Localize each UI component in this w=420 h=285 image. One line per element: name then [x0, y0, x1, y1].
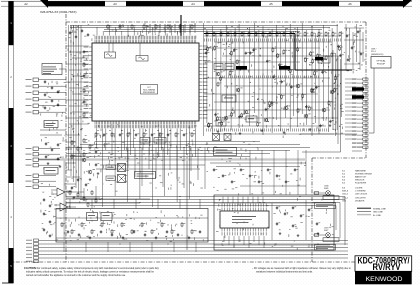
spindle motor connector row	[323, 238, 339, 242]
svg-text:variations between individual: variations between individual instrument…	[256, 271, 313, 274]
wire IC5 verticals down	[223, 236, 225, 242]
svg-text:For continued safety, replace: For continued safety, replace safety cri…	[37, 267, 160, 270]
wire mid right verticals	[249, 150, 251, 195]
spindle motor label box	[315, 245, 336, 251]
wire left mid links	[40, 129, 66, 131]
wire pickup column feed lines	[345, 78, 357, 80]
board outline dash-dot right edge	[365, 22, 367, 158]
IC7 microprocessor body	[92, 43, 199, 121]
node dots mid band	[96, 147, 97, 148]
svg-text:CAUTION:: CAUTION:	[24, 266, 37, 270]
connector CN1 pin boxes	[33, 78, 39, 81]
top border zone bar A5	[282, 1, 339, 6]
small box row under bus a	[214, 64, 223, 70]
svg-text:DRLAYER: DRLAYER	[355, 200, 365, 203]
svg-text:X26-675A-XX (X092-76XX): X26-675A-XX (X092-76XX)	[40, 10, 77, 14]
components between bus and IC7	[83, 50, 85, 51]
wire op-amp area links	[66, 191, 84, 193]
svg-text:indicates safety critical comp: indicates safety critical components. To…	[26, 271, 155, 274]
wire left vertical bus	[68, 25, 70, 170]
pin label fence right cluster row2	[205, 129, 208, 132]
IC5 servo driver body	[220, 211, 269, 228]
black label box CN4	[279, 66, 290, 70]
svg-text:A6: A6	[348, 2, 352, 6]
op-amp U3 triangle	[60, 203, 68, 211]
box radio pack	[44, 168, 58, 175]
wire left bus horizontals into IC	[66, 45, 89, 47]
IC5 top pins	[221, 208, 223, 212]
square driver IC Q11	[118, 175, 126, 183]
svg-text:LCD/HB: LCD/HB	[355, 188, 363, 190]
left border zone bar 3	[9, 108, 14, 183]
junction dots below IC7	[98, 130, 99, 131]
node junction dots on top bus	[119, 26, 120, 27]
small box row under bus b	[225, 64, 234, 70]
driver square QX2	[224, 134, 231, 141]
top border zone bar A2	[48, 1, 105, 6]
left border zone bar 5	[9, 248, 14, 283]
bold signal wire vertical left	[180, 15, 182, 36]
B+ line vertical gray band	[186, 160, 188, 251]
svg-text:carried out before/after the a: carried out before/after the appliance i…	[26, 274, 126, 277]
wire top bus line 4	[104, 31, 300, 33]
wire top bus line 2	[70, 27, 330, 29]
small box PLL	[222, 95, 236, 102]
component row below IC7	[95, 132, 97, 133]
svg-text:SW1-8: SW1-8	[342, 191, 349, 193]
components right edge strip	[346, 34, 348, 35]
title block model box	[355, 256, 412, 271]
wire audio board horizontals	[56, 217, 208, 219]
capacitor row mid right	[213, 168, 215, 169]
transistor cluster right	[224, 116, 228, 120]
black label box CN3	[236, 66, 247, 70]
wire horizontal into pin column	[302, 151, 341, 153]
bottom-left corner tick	[2, 282, 14, 284]
svg-text:CTT/RSHW: CTT/RSHW	[355, 191, 366, 193]
small box det	[216, 120, 226, 126]
speckle audio board	[85, 224, 87, 227]
optical pickup box	[371, 57, 391, 69]
board outline dash-dot notch horizontal	[312, 157, 366, 159]
electronic volume box	[135, 172, 156, 179]
svg-text:RV/RYV: RV/RYV	[373, 262, 401, 272]
IC5 bottom pins	[221, 228, 223, 232]
node dots bottom bus	[120, 244, 121, 245]
components top left corner band	[69, 31, 71, 32]
box band display	[44, 121, 58, 128]
top-right corner wedge	[403, 0, 412, 8]
wire right cluster horizontal links	[204, 35, 340, 37]
svg-text:HARDWIRE: HARDWIRE	[355, 170, 367, 173]
resistor rows audio board	[61, 222, 63, 223]
speckle mid band	[192, 183, 195, 186]
svg-text:LDR CKT(LF): LDR CKT(LF)	[355, 194, 368, 196]
wire right verticals lower	[344, 197, 346, 246]
wire long verticals right side	[332, 50, 334, 130]
IC7 internal label box	[141, 85, 158, 95]
IC7 left pins	[89, 46, 92, 48]
svg-text:KDC-7080RA: KDC-7080RA	[143, 89, 155, 92]
components bottom-left corner	[43, 198, 45, 199]
wire stub cluster above IC7	[149, 24, 151, 33]
IC5 internal label	[232, 215, 256, 218]
ground symbols servo board	[279, 232, 281, 233]
bold signal wire horizontal	[204, 33, 295, 35]
connector CN3 pin boxes	[33, 174, 39, 177]
driver square QX1	[213, 134, 220, 141]
speckle labels top band	[152, 28, 153, 31]
small box audio amp	[87, 213, 98, 221]
loading motor connector row	[323, 196, 339, 200]
svg-text:PICKUP: PICKUP	[377, 64, 386, 66]
svg-text:PROCESSOR: PROCESSOR	[143, 92, 156, 94]
small box label left of Q11	[106, 176, 116, 181]
speckle servo board	[294, 240, 295, 243]
wire IC7 bottom pin verticals	[96, 128, 98, 148]
transistor Q2	[88, 170, 92, 174]
node dots right cluster	[260, 48, 261, 49]
info box IC2 sub tuner	[42, 64, 62, 75]
small box under IC7 b	[154, 138, 166, 144]
svg-text:CN9 /: CN9 /	[371, 49, 377, 51]
wire IC5 verticals up	[222, 197, 224, 204]
svg-text:WRD/LDR: WRD/LDR	[355, 180, 365, 182]
bold signal wire horizontal 2	[295, 69, 352, 71]
pin label fence right cluster row1	[203, 39, 206, 42]
top border ruler line	[1, 0, 412, 2]
capacitors audio board	[67, 230, 69, 231]
svg-text:(KENWOOD): (KENWOOD)	[371, 54, 384, 56]
wire IC7 top pin verticals	[96, 27, 98, 36]
small box IF	[246, 116, 257, 122]
wire long horizontals lower	[66, 196, 345, 198]
kenwood logo box	[355, 271, 412, 284]
loading motor M1	[326, 191, 331, 196]
audio sub-board outline	[56, 209, 208, 243]
svg-text:KENWOOD: KENWOOD	[366, 276, 403, 283]
B+ line vertical gray band left	[63, 160, 65, 241]
svg-text:CN1-4: CN1-4	[342, 198, 349, 200]
pin label fence right cluster row3	[219, 76, 222, 79]
board outline dash-dot notch vertical	[311, 158, 313, 262]
speckle mid band wide	[158, 153, 159, 156]
svg-text:CIRCUITRY: CIRCUITRY	[355, 198, 367, 200]
svg-text:PU-1: PU-1	[371, 51, 377, 53]
speckle bottom-left corner	[40, 202, 43, 204]
svg-text:BAND/TCKT: BAND/TCKT	[355, 176, 367, 179]
legend signal line sample	[357, 207, 371, 209]
square driver IC Q10	[118, 164, 126, 172]
transistor Q1	[82, 158, 86, 162]
wire verticals into audio board	[69, 199, 71, 209]
small box label left of Q10	[106, 165, 116, 170]
svg-text:A4: A4	[191, 2, 195, 6]
speckle labels below IC7	[177, 124, 180, 127]
servo sub-board outline	[214, 195, 334, 250]
crystal oscillator box X1 inside IC7	[105, 52, 116, 58]
resistor group above op-amps	[69, 190, 71, 191]
speckle labels top band left	[71, 31, 73, 34]
board outline dash-dot left edge	[65, 14, 67, 262]
top-left corner wedge	[40, 0, 48, 8]
speckle mid right	[262, 192, 264, 195]
wire right edge strip verticals	[345, 24, 347, 70]
B+ line horizontal gray band	[38, 158, 305, 160]
top border zone bar A6	[360, 1, 403, 6]
left border zone bar 1	[9, 1, 14, 45]
component column fence right cluster	[314, 71, 316, 72]
capacitors left mid	[45, 142, 47, 143]
resistor bank top band	[107, 24, 109, 25]
speckle left mid cluster	[62, 140, 64, 143]
small box reg	[318, 56, 330, 63]
loading motor label box	[315, 203, 336, 209]
bold signal wire vertical	[294, 34, 296, 71]
small box audio amp 2	[101, 213, 112, 221]
node dots lower wires	[100, 199, 101, 200]
connector CN2 pin boxes	[33, 147, 39, 150]
IC7 right pins	[199, 45, 202, 47]
svg-text:A3: A3	[113, 2, 117, 6]
svg-text:WORKED/TRNSM: WORKED/TRNSM	[355, 174, 372, 176]
svg-text:– DC voltages are as measured: – DC voltages are as measured with a hig…	[252, 267, 351, 270]
connector CN5 pin boxes bottom	[34, 239, 39, 242]
board outline dash-dot top edge	[66, 21, 366, 23]
wire mid horizontals	[95, 141, 260, 143]
wire optical pickup vertical	[373, 68, 375, 133]
svg-text:B+ LINE: B+ LINE	[373, 215, 381, 217]
wire pickup column lower stubs	[352, 142, 362, 144]
op-amp U2 triangle	[57, 188, 65, 196]
wire right edge horizontals	[344, 27, 364, 29]
svg-text:GND LINE: GND LINE	[373, 212, 383, 214]
wire verticals audio to bottom bus	[63, 242, 65, 252]
IC7 top pins	[94, 40, 96, 43]
notes separator dash-dot line	[8, 261, 356, 263]
wire mid right horizontals	[210, 162, 306, 164]
junction dots left bus	[73, 76, 74, 77]
speckle labels right cluster	[273, 66, 276, 68]
top border zone bar A3	[126, 1, 183, 6]
svg-text:A5: A5	[269, 2, 273, 6]
legend b+ line sample	[357, 214, 371, 216]
capacitor column left connectors	[44, 80, 46, 81]
speckle left bus area	[77, 122, 80, 125]
spindle motor M2	[326, 233, 331, 238]
small box under IC7 a	[140, 138, 150, 144]
wire top bus line 3	[104, 29, 322, 31]
wire bottom connector horizontals	[39, 240, 349, 242]
wire mid verticals	[127, 148, 129, 169]
ground symbols left mid	[47, 162, 49, 163]
svg-text:CN1-3: CN1-3	[342, 194, 349, 196]
connector CN8 pin column	[363, 78, 368, 80]
svg-text:FL&DRIVER: FL&DRIVER	[355, 183, 367, 185]
component band right cluster y50	[207, 46, 209, 47]
resistor fence right cluster top	[206, 32, 208, 33]
svg-text:SIGNAL LINE: SIGNAL LINE	[373, 207, 386, 210]
svg-text:A2: A2	[24, 2, 28, 6]
crystal oscillator box X2 inside IC7	[136, 56, 148, 62]
left border ruler line	[8, 1, 10, 283]
node dots long verticals right	[333, 70, 334, 71]
wire top bus line 1	[70, 25, 338, 27]
wire servo board mesh	[214, 202, 334, 204]
black connector bar CN8 upper	[352, 88, 364, 91]
speckle right edge strip	[352, 71, 355, 74]
speckle left connector area	[49, 107, 52, 110]
resistor group left mid	[71, 140, 73, 141]
components right of IC5	[276, 206, 278, 207]
wire left bus ladder rungs	[66, 134, 80, 136]
cd controller box	[214, 148, 237, 156]
IC7 bottom pins	[94, 121, 96, 124]
svg-text:OPTICAL: OPTICAL	[376, 59, 386, 62]
black label box top right	[315, 57, 323, 60]
black connector bar CN8 lower	[352, 96, 364, 99]
legend gnd line sample	[357, 210, 371, 212]
top border zone bar A4	[204, 1, 261, 6]
ground symbols right cluster	[217, 130, 219, 131]
wire right cluster vertical mesh	[203, 23, 205, 136]
